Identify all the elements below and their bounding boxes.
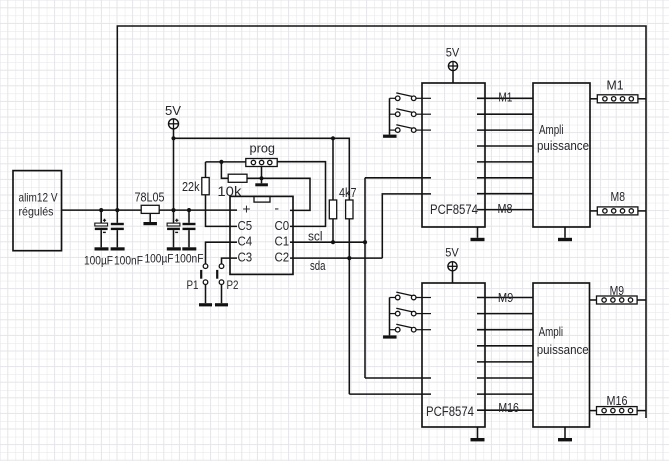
- ground below capacitor #4: [182, 247, 196, 250]
- svg-text:+: +: [242, 201, 250, 217]
- ground switches #2: [383, 335, 397, 338]
- resistor 4k7 #2: [346, 200, 353, 219]
- node junction cap1 on rail: [99, 208, 103, 212]
- wire 5V stem to PCF #2: [452, 271, 454, 283]
- wire connector M1 to bus: [638, 98, 646, 100]
- svg-text:100nF: 100nF: [175, 252, 204, 266]
- node junction prog ground on 10k line: [259, 176, 263, 180]
- switch bus to ground #2: [389, 298, 391, 336]
- IC PCF8574 #2 box: [422, 283, 485, 427]
- amplifier box #2: [533, 283, 590, 427]
- wire 4k7 #1 top lead: [332, 138, 334, 200]
- switch A1 #2: [390, 308, 432, 316]
- capacitor 100µF electrolytic #1: [95, 210, 108, 247]
- wire PCF#2 output P0 to amplifier: [477, 297, 533, 299]
- ground switches #1: [383, 135, 397, 138]
- wire PCF#2 output P7 to amplifier: [477, 409, 533, 411]
- connector prog 3-pin: [246, 159, 277, 167]
- svg-text:M1: M1: [498, 90, 512, 104]
- wire PCF#1 output P4 to amplifier: [477, 161, 533, 163]
- svg-text:100nF: 100nF: [114, 254, 143, 268]
- wire PCF#1 output P3 to amplifier: [477, 145, 533, 147]
- svg-text:C4: C4: [238, 234, 253, 249]
- wire PCF#1 output P2 to amplifier: [477, 129, 533, 131]
- svg-text:100µF: 100µF: [84, 254, 113, 268]
- svg-text:scl: scl: [308, 229, 323, 243]
- capacitor 100nF #2: [183, 210, 196, 247]
- wire sda bus vertical: [348, 219, 350, 394]
- resistor 22k: [202, 178, 209, 195]
- wire scl to PCF8574 #1: [365, 177, 431, 179]
- wire amplifier #2 to connector M9: [590, 299, 597, 301]
- switch A2 #2: [390, 324, 432, 332]
- amplifier box #1: [533, 83, 590, 227]
- svg-text:M8: M8: [498, 202, 513, 216]
- wire amplifier #2 to connector M16: [590, 410, 597, 412]
- svg-text:-: -: [274, 200, 279, 216]
- wire 5V rail to pull-up resistors: [174, 138, 350, 200]
- node junction 4k7 #1 on scl: [331, 240, 335, 244]
- wire connector M16 to bus: [637, 410, 646, 412]
- wire 22k top lead to prog line: [205, 162, 207, 178]
- wire sda riser to PCF8574 #1: [382, 194, 431, 258]
- wire 4k7 #1 bottom lead: [332, 219, 334, 242]
- svg-text:5V: 5V: [446, 45, 460, 59]
- svg-text:5V: 5V: [445, 246, 459, 260]
- svg-text:sda: sda: [310, 259, 326, 273]
- svg-text:C5: C5: [238, 218, 253, 233]
- wire PCF#1 output P7 to amplifier: [477, 209, 533, 211]
- node junction sda bus: [347, 256, 351, 260]
- wire C4 to button P1: [206, 242, 238, 264]
- ground below PCF8574 #1: [471, 227, 485, 241]
- node junction 5V stem and rail: [171, 136, 175, 140]
- node junction 4k7 #1 on 5V rail: [331, 136, 335, 140]
- svg-text:alim12 V: alim12 V: [19, 191, 58, 205]
- svg-text:M16: M16: [498, 401, 519, 415]
- svg-text:78L05: 78L05: [135, 191, 165, 205]
- svg-text:C3: C3: [238, 249, 253, 264]
- ground below PCF8574 #2: [471, 427, 485, 441]
- power 5V symbol main: [169, 119, 179, 129]
- power supply box alim 12V: [13, 171, 62, 251]
- svg-text:5V: 5V: [165, 104, 182, 118]
- microcontroller box U1: [230, 196, 293, 274]
- wire PCF#2 output P2 to amplifier: [477, 329, 533, 331]
- node junction scl bus: [363, 240, 367, 244]
- wire 22k bottom lead to C5 pin: [206, 195, 238, 227]
- svg-text:M16: M16: [607, 394, 628, 408]
- ground below amplifier #1: [558, 227, 572, 241]
- svg-text:P2: P2: [227, 280, 239, 292]
- wire prog center pin to ground: [261, 167, 263, 184]
- capacitor 100µF electrolytic #2: [167, 210, 180, 247]
- wire PCF#1 output P0 to amplifier: [477, 97, 533, 99]
- ground below capacitor #2: [111, 247, 125, 250]
- svg-text:PCF8574: PCF8574: [430, 202, 478, 217]
- wire PCF#2 output P4 to amplifier: [477, 361, 533, 363]
- wire PCF#2 output P3 to amplifier: [477, 345, 533, 347]
- connector M8: [597, 207, 638, 215]
- svg-text:22k: 22k: [182, 180, 200, 194]
- resistor 4k7 #1: [329, 200, 336, 219]
- IC PCF8574 #1 box: [422, 83, 485, 227]
- wire PCF#2 output P6 to amplifier: [477, 393, 533, 395]
- connector M16: [597, 407, 638, 415]
- wire 5V stem down to rail: [173, 129, 175, 211]
- svg-text:C0: C0: [275, 218, 290, 233]
- node junction cap4 on rail: [187, 208, 191, 212]
- wire scl from C1: [290, 241, 365, 243]
- ground below prog: [255, 183, 268, 186]
- wire prog right pin to C0: [277, 162, 325, 227]
- svg-text:M1: M1: [607, 79, 624, 93]
- ground stem below 78L05: [149, 213, 151, 222]
- node junction cap2 on rail: [115, 208, 119, 212]
- wire sda to PCF8574 #2: [349, 393, 431, 395]
- svg-text:4k7: 4k7: [339, 186, 357, 200]
- regulator 78L05: [141, 205, 159, 213]
- wire 12V bus from alim rail up across top to right motor bus: [117, 26, 646, 418]
- connector M1: [597, 95, 638, 103]
- wire PCF#1 output P1 to amplifier: [477, 113, 533, 115]
- wire C3 to button P2: [222, 258, 238, 264]
- switch bus to ground #1: [389, 98, 391, 134]
- wire PCF#1 output P5 to amplifier: [477, 177, 533, 179]
- wire connector M9 to bus: [637, 299, 646, 301]
- node junction cap3/5V on rail: [171, 208, 175, 212]
- wire sda from C2: [290, 257, 382, 259]
- wire scl bus vertical: [364, 178, 366, 378]
- switch A0 #1: [390, 93, 432, 101]
- svg-text:C1: C1: [275, 234, 290, 249]
- svg-text:prog: prog: [250, 141, 276, 156]
- ground below amplifier #2: [558, 427, 572, 441]
- switch A0 #2: [390, 292, 432, 300]
- wire scl to PCF8574 #2: [365, 377, 431, 379]
- ground below P2: [215, 303, 228, 306]
- switch A1 #1: [390, 109, 432, 117]
- resistor 10k: [228, 174, 247, 182]
- svg-text:puissance: puissance: [537, 343, 589, 357]
- power 5V symbol PCF8574 #1: [448, 61, 457, 70]
- ground below capacitor #3: [167, 247, 181, 250]
- push button P2: [216, 264, 224, 303]
- svg-text:P1: P1: [187, 280, 199, 292]
- node junction 10k on prog line: [219, 160, 223, 164]
- wire amplifier #1 to connector M8: [590, 210, 597, 212]
- svg-text:M8: M8: [611, 190, 626, 204]
- wire 5V stem to PCF #1: [452, 71, 454, 83]
- svg-text:M9: M9: [610, 284, 625, 298]
- wire PCF#1 output P6 to amplifier: [477, 193, 533, 195]
- push button P1: [200, 264, 208, 303]
- capacitor 100nF #1: [111, 210, 124, 247]
- power 5V symbol PCF8574 #2: [448, 262, 457, 271]
- connector M9: [597, 296, 638, 304]
- svg-text:100µF: 100µF: [145, 252, 174, 266]
- wire prog serial line: [206, 161, 246, 163]
- wire PCF#2 output P1 to amplifier: [477, 313, 533, 315]
- svg-text:M9: M9: [498, 291, 514, 305]
- svg-text:Ampli: Ampli: [539, 123, 564, 137]
- svg-text:Ampli: Ampli: [539, 325, 564, 339]
- wire PCF#2 output P5 to amplifier: [477, 377, 533, 379]
- svg-text:PCF8574: PCF8574: [426, 404, 474, 419]
- wire connector M8 to bus: [638, 210, 646, 212]
- svg-text:C2: C2: [275, 249, 290, 264]
- ground below 78L05: [143, 222, 157, 225]
- ground below P1: [199, 303, 212, 306]
- wire main supply rail from alim to microcontroller + pin: [62, 209, 238, 211]
- svg-text:régulés: régulés: [19, 205, 54, 219]
- wire 10k left lead: [221, 162, 228, 178]
- wire 10k right lead to - pin: [247, 178, 310, 210]
- ground below capacitor #1: [95, 247, 109, 250]
- switch A2 #1: [390, 125, 432, 133]
- svg-text:puissance: puissance: [537, 139, 589, 153]
- wire amplifier #1 to connector M1: [590, 98, 597, 100]
